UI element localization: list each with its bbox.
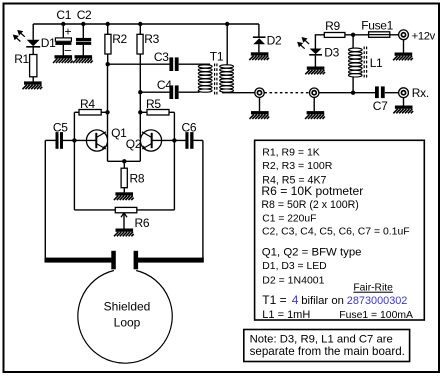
shielded loop text [104, 300, 151, 330]
wire R6 line right [137, 209, 175, 211]
wire left bias vertical [73, 112, 75, 210]
svg-text:R6: R6 [135, 216, 150, 230]
svg-text:L1 = 1mH: L1 = 1mH [262, 309, 310, 321]
svg-text:–: – [65, 43, 72, 57]
node Q2 base [172, 138, 176, 142]
values box [255, 140, 425, 320]
ground under C1 [53, 55, 73, 63]
svg-text:D2: D2 [267, 33, 282, 47]
wire L1 bottom [352, 77, 354, 93]
shielded loop left tick [111, 251, 116, 269]
svg-text:4: 4 [292, 293, 299, 307]
terminal Rx [399, 88, 409, 98]
resistor R3 [137, 34, 143, 54]
transistor Q2 [140, 130, 161, 151]
coax connector right [310, 88, 319, 97]
svg-text:R2: R2 [112, 32, 127, 46]
transformer T1 core [215, 64, 217, 95]
svg-text:C7: C7 [373, 99, 388, 113]
wire Q2 emitter lead [139, 143, 141, 162]
terminal +12v [399, 30, 409, 40]
LED D3 [298, 38, 322, 55]
wire dashed coax link [264, 92, 309, 94]
wire R2 bottom to node [107, 54, 109, 64]
svg-text:C3: C3 [154, 50, 169, 64]
svg-text:Loop: Loop [114, 316, 141, 330]
shielded loop right feed bar [136, 258, 204, 263]
svg-text:2873000302: 2873000302 [347, 295, 408, 307]
wire coax2 ground stub [313, 98, 315, 112]
wire fuse to +12v [390, 34, 399, 36]
node Q1 base [72, 138, 76, 142]
svg-text:Rx.: Rx. [412, 86, 429, 100]
node emitter junction [122, 159, 126, 163]
wire C5 left stub [45, 139, 55, 141]
wire top supply rail [33, 23, 259, 25]
resistor R4 [79, 110, 101, 116]
node R2-C3 [106, 62, 110, 66]
wire C3 to T1 [179, 63, 210, 65]
wire D1 to R1 [32, 48, 34, 55]
wire T1 secondary out [222, 92, 255, 94]
wire right bias vertical [173, 112, 175, 210]
wire R8 to ground [123, 188, 125, 193]
node rail-R2 [106, 22, 110, 26]
svg-text:C1: C1 [56, 8, 71, 22]
wire R3 bottom to Q2 collector [139, 54, 141, 139]
resistor R5 [147, 110, 169, 116]
svg-text:D3: D3 [324, 45, 339, 59]
wire emitter bus [108, 160, 141, 162]
ground under D2 [249, 52, 269, 60]
ground under C2 [73, 55, 93, 63]
capacitor C2 [76, 38, 91, 45]
wire node to C4 [140, 91, 169, 93]
wire C6 right stub [194, 139, 203, 141]
wire D1 top drop [32, 24, 34, 40]
svg-text:R3: R3 [144, 32, 159, 46]
wire R4 left stub [74, 111, 79, 113]
ground under Rx [393, 106, 413, 114]
node Q1 collector [105, 110, 109, 114]
wire R2 drop [107, 24, 109, 34]
LED D1 [14, 31, 41, 47]
inductor L1 core [364, 47, 366, 79]
wire T1 right winding to rail [226, 24, 228, 65]
node rail-C1 [61, 22, 65, 26]
wire R6 wiper shaft [123, 213, 125, 229]
wire right loop feed drop [202, 140, 204, 258]
ground under R8 [114, 192, 134, 200]
node rail-R3 [138, 22, 142, 26]
wire +12v ground stub [403, 40, 405, 53]
wire R1 to ground [32, 77, 34, 82]
ground under R6 [114, 229, 134, 237]
wire R5 left stub [140, 111, 147, 113]
wire coax2 to C7 [319, 92, 375, 94]
svg-text:R8 = 50R (2 x 100R): R8 = 50R (2 x 100R) [261, 199, 358, 211]
svg-text:C6: C6 [182, 120, 197, 134]
fuse Fuse1 [369, 32, 390, 38]
node rail-T1 [225, 22, 229, 26]
wire R8 top [123, 161, 125, 168]
potentiometer R6 wiper arrow [121, 213, 127, 217]
svg-text:R4: R4 [80, 97, 95, 111]
wire Q1 collector branch [107, 64, 109, 138]
ground under coax left [249, 111, 269, 119]
svg-text:Fuse1: Fuse1 [361, 18, 393, 32]
wire coax1 ground stub [259, 98, 261, 112]
transformer T1 right winding [220, 65, 234, 92]
svg-text:+: + [65, 25, 72, 39]
svg-text:L1: L1 [370, 56, 383, 70]
ground under +12v [393, 53, 413, 61]
shielded loop circle [78, 271, 172, 364]
shielded loop left feed bar [45, 258, 115, 263]
svg-text:Fuse1 = 100mA: Fuse1 = 100mA [339, 310, 413, 321]
potentiometer R6 body [115, 207, 137, 212]
wire R5 right stub [169, 111, 174, 113]
wire D3 to ground [314, 56, 316, 67]
svg-text:Q2: Q2 [126, 137, 142, 151]
wire D2 drop [258, 24, 260, 37]
wire Q1 emitter lead [107, 143, 109, 162]
svg-text:D2 = 1N4001: D2 = 1N4001 [262, 275, 324, 287]
resistor R9 [324, 33, 345, 38]
svg-text:Note: D3, R9, L1 and C7 are: Note: D3, R9, L1 and C7 are [250, 333, 393, 345]
wire Rx ground stub [403, 98, 405, 106]
node R9-L1 [351, 33, 355, 37]
capacitor C1 (electrolytic) [55, 25, 71, 57]
values text [261, 146, 413, 321]
capacitor C7 [375, 86, 385, 98]
wire C2 drop [82, 24, 84, 38]
wire C4 to T1 [179, 91, 200, 93]
svg-text:R9: R9 [325, 19, 340, 33]
svg-text:C5: C5 [53, 120, 68, 134]
svg-text:Fair-Rite: Fair-Rite [353, 283, 393, 294]
wire C2 to ground [82, 45, 84, 56]
wire C5 to Q1 base [63, 139, 96, 141]
wire R9 to fuse [345, 34, 369, 36]
svg-text:D1, D3 = LED: D1, D3 = LED [262, 261, 326, 272]
inductor L1 winding [349, 48, 363, 77]
transformer T1 left winding [198, 65, 212, 92]
svg-text:C2, C3, C4, C5, C6, C7 = 0.1uF: C2, C3, C4, C5, C6, C7 = 0.1uF [262, 227, 410, 238]
wire R3 drop [139, 24, 141, 34]
svg-text:C1 = 220uF: C1 = 220uF [262, 213, 316, 224]
svg-text:R8: R8 [130, 171, 145, 185]
node R3-C4 [138, 90, 142, 94]
svg-text:T1: T1 [210, 49, 224, 63]
svg-text:Q1, Q2 = BFW type: Q1, Q2 = BFW type [262, 247, 362, 259]
node L1-C7 [351, 91, 355, 95]
wire C7 to Rx [385, 92, 399, 94]
capacitor C6 [185, 132, 193, 149]
svg-text:Shielded: Shielded [104, 300, 151, 314]
svg-text:+12v: +12v [412, 30, 436, 42]
wire C1 drop [62, 24, 64, 38]
note box [244, 330, 410, 362]
ground under R1 [23, 81, 43, 89]
svg-text:R6 = 10K potmeter: R6 = 10K potmeter [261, 184, 363, 198]
wire Q2 base to C6 [152, 139, 186, 141]
svg-text:R1: R1 [14, 52, 29, 66]
diode D2 [253, 37, 266, 44]
capacitor C5 [56, 132, 64, 149]
shielded loop right tick [134, 251, 139, 269]
coax connector left [255, 88, 264, 97]
wire L1 top drop [352, 35, 354, 48]
note text [250, 333, 405, 358]
ground under D3 [305, 67, 325, 75]
capacitor C3 [169, 57, 178, 71]
svg-text:D1: D1 [41, 36, 56, 50]
wire left loop feed drop [44, 140, 46, 258]
transistor Q1 [86, 130, 107, 151]
ground under coax right [305, 111, 325, 119]
node Q2 collector [138, 110, 142, 114]
wire C1 to ground [62, 45, 64, 56]
resistor R8 [121, 168, 127, 188]
wire R6 line left [74, 209, 115, 211]
svg-text:R5: R5 [146, 97, 161, 111]
svg-text:T1 =: T1 = [262, 293, 286, 307]
wire R4 right stub [101, 111, 107, 113]
svg-text:separate from the main board.: separate from the main board. [250, 345, 405, 358]
svg-text:C4: C4 [157, 78, 172, 92]
svg-text:Q1: Q1 [111, 126, 127, 140]
node rail-C2 [81, 22, 85, 26]
svg-text:bifilar on: bifilar on [301, 295, 344, 307]
svg-text:R2, R3 = 100R: R2, R3 = 100R [262, 160, 332, 172]
resistor R1 [30, 55, 37, 77]
capacitor C4 [169, 85, 178, 99]
svg-text:C2: C2 [77, 8, 92, 22]
svg-text:R1, R9 = 1K: R1, R9 = 1K [262, 146, 320, 158]
wire D2 to ground [258, 44, 260, 52]
wire R9 left corner [315, 35, 324, 49]
wire node to C3 [108, 63, 170, 65]
resistor R2 [105, 34, 111, 54]
